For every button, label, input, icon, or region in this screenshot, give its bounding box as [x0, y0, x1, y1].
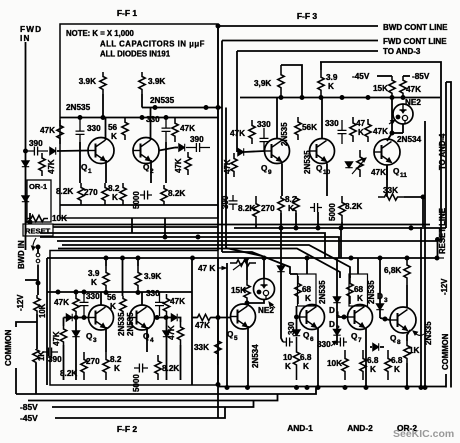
- resistor 47K (Q9 base): [249, 120, 255, 144]
- svg-text:2N534: 2N534: [397, 135, 422, 144]
- svg-text:D: D: [329, 320, 335, 329]
- wire Q8 base lower: [370, 346, 372, 348]
- svg-text:AND-2: AND-2: [347, 423, 373, 433]
- wire bus y245: [62, 245, 350, 278]
- svg-text:270: 270: [86, 357, 100, 366]
- wire Q3 base corner down: [63, 318, 65, 327]
- svg-text:F-F 3: F-F 3: [297, 11, 318, 21]
- svg-text:2N335: 2N335: [424, 321, 433, 345]
- wire 56K feed: [122, 258, 124, 296]
- resistor 33K horizontal: [378, 194, 404, 200]
- svg-text:7: 7: [358, 337, 362, 344]
- resistor 3.9K (Q2 collector): [139, 72, 145, 94]
- svg-text:K: K: [305, 294, 311, 303]
- F-F1 enclosure box: [60, 24, 218, 218]
- transistor Q8: [390, 307, 416, 333]
- wire bus y233: [40, 233, 325, 258]
- wire Q4 collector: [141, 292, 143, 305]
- wire to Q11 base: [387, 133, 392, 141]
- wire Q9 column down: [255, 225, 257, 229]
- resistor 47K (right lower): [185, 152, 191, 175]
- wire -12V tick: [25, 279, 38, 281]
- wire AND-2 box top feed: [357, 258, 359, 274]
- wire Q4 emitter: [146, 327, 148, 352]
- wire Q5 emitter: [247, 326, 249, 388]
- svg-text:5000: 5000: [328, 203, 337, 221]
- svg-text:Q: Q: [86, 332, 93, 341]
- svg-text:Q: Q: [303, 331, 310, 340]
- resistor 68K (AND-1): [295, 276, 301, 304]
- svg-text:3.9K: 3.9K: [79, 77, 96, 86]
- wire Q2 base to components: [159, 148, 175, 151]
- transistor Q6: [300, 305, 325, 330]
- svg-text:330: 330: [87, 124, 101, 133]
- svg-text:-12V: -12V: [16, 294, 25, 311]
- svg-text:8.2K: 8.2K: [345, 202, 362, 211]
- svg-text:F-F 1: F-F 1: [117, 8, 138, 18]
- wire Q1 collector: [105, 118, 107, 141]
- resistor 6.8K (Q8 left): [385, 350, 391, 380]
- svg-text:33K: 33K: [383, 186, 398, 195]
- svg-text:15K: 15K: [373, 84, 388, 93]
- wire switch down: [37, 265, 39, 296]
- wire COMMON branch: [16, 322, 37, 327]
- wire Q9 collector: [276, 98, 278, 139]
- svg-text:11: 11: [400, 172, 407, 179]
- svg-text:NOTE: K = X 1,000: NOTE: K = X 1,000: [66, 29, 134, 38]
- wire Q2 emitter: [150, 160, 152, 183]
- resistor 47K (-85V): [400, 76, 406, 98]
- resistor 10K horizontal: [27, 215, 48, 221]
- resistor 56K (F-F2): [120, 296, 126, 314]
- resistor 68K (AND-2): [347, 276, 353, 304]
- transistor Q1: [88, 138, 114, 164]
- wire FWD IN vertical: [25, 42, 27, 250]
- wire bus y400 staircase: [28, 394, 278, 401]
- wire Q9 emitter: [281, 164, 283, 197]
- capacitor 5000 (F-F2): [134, 364, 148, 373]
- RESET box: [23, 224, 53, 236]
- wire AND-1 left vertical: [281, 228, 283, 342]
- svg-text:10K: 10K: [38, 303, 47, 318]
- transistor Q7: [348, 305, 373, 330]
- svg-text:K: K: [357, 294, 363, 303]
- svg-text:Q: Q: [316, 164, 323, 173]
- capacitor 330 (Q9): [260, 128, 269, 152]
- svg-text:Q: Q: [261, 164, 268, 173]
- svg-text:68: 68: [354, 285, 364, 294]
- wire RESET line right: [53, 226, 218, 228]
- wire F-F1 lower bus: [60, 204, 218, 206]
- wire 15K top: [246, 258, 248, 280]
- wire Q3 emitter: [105, 327, 107, 352]
- svg-text:330: 330: [86, 292, 100, 301]
- svg-text:6.8: 6.8: [300, 353, 312, 362]
- diode AND-1 input: [277, 266, 284, 272]
- wire Q1 base: [57, 150, 89, 153]
- resistor 3.9K (Q1 collector): [100, 72, 106, 94]
- svg-text:10K: 10K: [52, 214, 67, 223]
- wire x218 vertical: [217, 258, 219, 385]
- resistor 3.9K (Q9): [278, 65, 284, 98]
- wire Q4 base corner: [178, 318, 181, 323]
- svg-text:8.2: 8.2: [108, 184, 120, 193]
- wire 1K bottom: [406, 363, 408, 388]
- svg-text:6: 6: [310, 336, 314, 343]
- svg-text:FWD CONT LINE: FWD CONT LINE: [383, 37, 447, 46]
- svg-text:AND-1: AND-1: [287, 423, 313, 433]
- svg-text:10K: 10K: [327, 359, 342, 368]
- wire 47K right col down: [166, 316, 168, 380]
- svg-text:330: 330: [325, 119, 339, 128]
- resistor 47K (Q4 base lower): [177, 322, 183, 345]
- wire vertical x226: [225, 108, 227, 249]
- svg-text:5000: 5000: [132, 191, 141, 209]
- wire Q8 base link: [380, 318, 390, 320]
- svg-text:15K: 15K: [231, 286, 246, 295]
- wire long bus y258: [47, 257, 437, 259]
- svg-text:8.2K: 8.2K: [60, 369, 77, 378]
- svg-text:Q: Q: [227, 330, 234, 339]
- wire cross-couple Q2: [165, 142, 167, 183]
- wire bus y394 staircase: [16, 388, 316, 395]
- wire TO AND-3 vertical: [236, 51, 238, 152]
- diode near Q11: [345, 162, 352, 168]
- resistor 33K (right column): [215, 330, 221, 365]
- node dot: [216, 24, 220, 28]
- wire bus y237: [40, 237, 339, 258]
- svg-text:Q: Q: [351, 332, 358, 341]
- resistor 15K: [389, 76, 395, 98]
- wire Q7 base link: [337, 316, 348, 318]
- node dots misc: [101, 116, 105, 120]
- svg-text:8.2: 8.2: [285, 195, 297, 204]
- svg-text:10: 10: [283, 353, 293, 362]
- wire -45V bus: [55, 407, 225, 418]
- svg-text:K: K: [370, 365, 376, 374]
- svg-text:8.2K: 8.2K: [162, 364, 179, 373]
- svg-text:390: 390: [48, 355, 62, 364]
- diode on x166: [163, 331, 170, 337]
- svg-text:47K: 47K: [52, 331, 61, 346]
- resistor 8.2K (F-F2 left): [81, 352, 87, 380]
- resistor 3.9K (Q4): [135, 266, 141, 292]
- svg-text:56: 56: [107, 293, 117, 302]
- wire F-F1 to staircase stub b: [164, 218, 166, 237]
- wire cross-couple Q1: [79, 142, 81, 183]
- resistor 270: [102, 183, 108, 205]
- resistor 47K (Q11 base): [365, 119, 371, 142]
- svg-text:56: 56: [108, 123, 118, 132]
- wire trimmer down: [226, 263, 228, 388]
- AND-1 box: [298, 274, 317, 306]
- transistor Q4: [130, 305, 155, 330]
- svg-text:47K: 47K: [230, 129, 245, 138]
- resistor 6.8K (Q7): [360, 350, 366, 380]
- svg-text:2: 2: [336, 325, 340, 332]
- wire TO AND-3: [237, 50, 378, 52]
- svg-text:3: 3: [93, 337, 97, 344]
- capacitor 390 (right): [186, 143, 210, 152]
- svg-text:2N535: 2N535: [66, 103, 91, 112]
- wire collector bus left: [60, 117, 218, 119]
- wire 1K down: [35, 363, 37, 394]
- svg-text:Q: Q: [81, 163, 88, 172]
- wire Q4 base right: [155, 317, 172, 319]
- diode on Q2 base line: [179, 144, 185, 151]
- resistor 47K (right): [172, 118, 178, 143]
- svg-text:5000: 5000: [132, 374, 141, 392]
- resistor 47 (x353): [350, 117, 356, 142]
- wire 10K to 1K: [36, 314, 38, 349]
- svg-text:2N535: 2N535: [150, 96, 175, 105]
- resistor 47K (Q3 base lower): [60, 326, 66, 345]
- svg-text:47K: 47K: [54, 298, 69, 307]
- svg-text:Q: Q: [393, 167, 400, 176]
- wire diag 2: [226, 248, 262, 256]
- svg-text:ALL DIODES IN191: ALL DIODES IN191: [100, 50, 171, 59]
- node Q5 base: [245, 301, 249, 305]
- wire Q1 emitter: [105, 160, 107, 183]
- OR-1 box: [27, 180, 51, 222]
- capacitor 390 (F-F3 left): [229, 195, 238, 210]
- capacitor AND-1 input: [283, 338, 293, 347]
- resistor (F-F3 x296): [293, 196, 299, 213]
- svg-text:33K: 33K: [194, 343, 209, 352]
- svg-text:47K: 47K: [40, 126, 55, 135]
- wire Q6 emitter: [317, 328, 319, 388]
- svg-text:47K: 47K: [180, 124, 195, 133]
- svg-text:330: 330: [317, 340, 331, 349]
- diode on FWD IN wire lower: [22, 196, 29, 202]
- resistor 10K (left column): [34, 295, 40, 314]
- svg-text:SeeKIC.com: SeeKIC.com: [393, 428, 454, 440]
- wire -85V bus: [52, 401, 254, 408]
- wire Q3 base: [64, 317, 89, 319]
- resistor 47K (left, on box edge): [57, 120, 63, 144]
- wire bus y248: [58, 249, 340, 279]
- wire x341 link: [340, 228, 342, 258]
- svg-text:2N534: 2N534: [251, 344, 260, 368]
- transistor Q2: [133, 138, 159, 164]
- svg-text:K: K: [91, 278, 97, 287]
- svg-text:K: K: [303, 362, 309, 371]
- transistor Q5: [231, 304, 256, 329]
- capacitor AND-2 input: [337, 338, 347, 347]
- svg-text:6,8K: 6,8K: [384, 266, 401, 275]
- svg-text:8.2K: 8.2K: [168, 189, 185, 198]
- svg-text:330: 330: [257, 120, 271, 129]
- wire diag1 to AND-1 box: [290, 273, 298, 275]
- resistor 3.9K (Q10): [318, 70, 324, 98]
- diode D2: [333, 329, 340, 335]
- svg-text:K: K: [111, 132, 117, 141]
- resistor 47K outside F-F3: [231, 153, 237, 177]
- svg-text:47K: 47K: [174, 158, 183, 173]
- resistor 47K (right F-F2): [163, 294, 169, 316]
- svg-text:RESET LINE: RESET LINE: [438, 208, 447, 254]
- svg-text:NE2: NE2: [258, 306, 274, 315]
- neon NE2 (lower): [254, 279, 275, 300]
- resistor 8.2 K (F-F3 mid): [278, 196, 284, 213]
- svg-text:K: K: [394, 365, 400, 374]
- wire Q8 emitter: [407, 330, 410, 341]
- svg-text:2N535: 2N535: [280, 122, 289, 146]
- wire BWD CONT LINE: [218, 25, 378, 27]
- wire 15K down: [391, 98, 393, 134]
- wire Q9 base: [244, 151, 265, 152]
- capacitor 330 (right): [162, 118, 171, 143]
- wire bus y228: [234, 227, 446, 229]
- svg-text:3.9K: 3.9K: [148, 77, 165, 86]
- diode on x76: [72, 331, 79, 337]
- AND-2 box: [349, 274, 368, 306]
- svg-text:-12V: -12V: [440, 278, 449, 295]
- resistor 8.2K (F-F3 right): [339, 196, 345, 222]
- resistor 8.2K (F-F2 right): [155, 355, 161, 380]
- svg-text:K: K: [328, 82, 334, 91]
- svg-text:6.8: 6.8: [391, 356, 403, 365]
- capacitor 390 (F-F2 left): [42, 348, 58, 357]
- wire common corner: [445, 374, 447, 388]
- svg-text:6.8: 6.8: [367, 356, 379, 365]
- resistor 47K (left F-F2): [73, 294, 79, 316]
- svg-text:270: 270: [261, 204, 275, 213]
- resistor 15K (Q5): [244, 280, 250, 303]
- wire right rail A: [420, 227, 422, 388]
- wire 3.9K Q3 top stub: [105, 258, 107, 266]
- svg-text:5: 5: [234, 335, 238, 342]
- transistor Q10: [310, 139, 335, 164]
- svg-text:47K: 47K: [170, 297, 185, 306]
- svg-text:390: 390: [190, 135, 204, 144]
- wire vertical x222: [221, 41, 223, 253]
- svg-text:3.9: 3.9: [88, 269, 100, 278]
- wire 3.9K top: [281, 65, 302, 98]
- resistor 1K (Q8): [404, 341, 410, 363]
- resistor 56K: [295, 117, 301, 140]
- svg-text:-45V: -45V: [20, 413, 38, 423]
- diode Q9 base: [238, 148, 244, 155]
- svg-text:3,9K: 3,9K: [254, 79, 271, 88]
- wire -85V tick: [403, 75, 410, 77]
- svg-text:2N535: 2N535: [303, 150, 312, 174]
- svg-text:47K: 47K: [406, 85, 421, 94]
- resistor 56K: [122, 118, 128, 141]
- svg-text:47: 47: [356, 119, 366, 128]
- wire F-F2 bottom to -45V: [217, 385, 219, 418]
- svg-text:3: 3: [384, 297, 388, 304]
- svg-text:3.9: 3.9: [326, 73, 338, 82]
- capacitor 5000: [140, 191, 152, 200]
- svg-text:8.2: 8.2: [110, 355, 122, 364]
- wire Q11 emitter to 33K: [386, 165, 388, 197]
- resistor 47K variable horizontal: [230, 260, 256, 266]
- diode D3: [376, 304, 383, 310]
- svg-text:330: 330: [146, 289, 160, 298]
- svg-text:COMMON: COMMON: [441, 333, 450, 370]
- svg-text:3.9K: 3.9K: [144, 272, 161, 281]
- switch arrow BWD: [33, 238, 36, 250]
- diode D1: [333, 297, 340, 303]
- svg-text:ALL CAPACITORS IN μμF: ALL CAPACITORS IN μμF: [100, 40, 205, 49]
- wire D1 D2 vertical: [336, 258, 338, 345]
- capacitor 390 (left): [24, 147, 48, 156]
- resistor 1K (left column): [33, 349, 39, 363]
- resistor 47K (left lower): [39, 153, 45, 176]
- transistor Q3: [89, 305, 114, 330]
- neon NE2 (F-F3): [393, 104, 413, 124]
- wire 47K left col down: [75, 316, 77, 380]
- resistor 8.2K (left): [78, 183, 84, 205]
- resistor 6.8K (Q6): [293, 337, 299, 380]
- diode on Q1 base line: [50, 147, 56, 154]
- capacitor 330 (left): [76, 118, 85, 149]
- F-F2 enclosure box: [50, 251, 218, 386]
- wire x192 vertical: [191, 258, 193, 385]
- wire 47K to Q5 base: [211, 317, 231, 319]
- capacitor 5000 (F-F3): [310, 203, 322, 212]
- wire D3 vertical: [379, 258, 381, 318]
- svg-text:47K: 47K: [373, 127, 388, 136]
- wire NE2 down: [402, 124, 404, 133]
- svg-text:K: K: [114, 364, 120, 373]
- resistor 47K horizontal (Q5 base): [197, 314, 211, 320]
- wire 6.8K down to Q8: [406, 285, 408, 307]
- resistor 8.2K (right): [161, 185, 167, 205]
- resistor 270 (F-F3): [253, 196, 259, 225]
- wire RESET long line: [53, 224, 430, 226]
- svg-text:8.2K: 8.2K: [238, 204, 255, 213]
- svg-text:RESET: RESET: [25, 227, 51, 236]
- svg-text:TO AND-4: TO AND-4: [438, 133, 447, 170]
- svg-text:9: 9: [268, 169, 272, 176]
- resistor 270 (F-F2): [103, 352, 109, 380]
- wire collector bus right: [142, 107, 222, 109]
- switch contact BWD IN: [36, 253, 40, 257]
- diode (Q8 base): [373, 343, 379, 350]
- wire Q3 collector: [100, 292, 102, 305]
- svg-text:TO AND-3: TO AND-3: [383, 47, 421, 56]
- wire Q7 emitter: [365, 328, 367, 388]
- wire 5000 down stub: [317, 212, 319, 228]
- wire -45V tick: [377, 75, 392, 77]
- svg-text:390: 390: [29, 139, 43, 148]
- wire 33K to node: [404, 196, 423, 198]
- wire Q10 emitter: [326, 164, 328, 197]
- svg-text:-85V: -85V: [412, 72, 430, 81]
- wire AND-1 box top feed: [306, 258, 308, 274]
- svg-text:OR-1: OR-1: [29, 182, 48, 191]
- svg-text:IN: IN: [20, 34, 31, 43]
- svg-text:47K: 47K: [195, 321, 210, 330]
- transistor Q11: [374, 139, 400, 165]
- wire 3.9K Q4 top stub: [137, 258, 139, 266]
- wire -12V drop: [437, 240, 439, 259]
- wire FWD CONT LINE: [222, 40, 378, 42]
- resistor 10K (AND-2): [342, 350, 348, 380]
- F-F3 top box edge: [320, 62, 441, 241]
- wire Q6 base drop: [296, 306, 298, 330]
- svg-text:K: K: [112, 193, 118, 202]
- svg-text:47K: 47K: [47, 159, 56, 174]
- wire Q10 collector: [321, 98, 323, 139]
- diode (Q4 base): [171, 314, 177, 321]
- svg-text:2N535: 2N535: [367, 280, 376, 304]
- wire Q11 emitter: [386, 165, 388, 180]
- svg-text:K: K: [358, 128, 364, 137]
- diode on FWD IN wire upper: [22, 161, 29, 167]
